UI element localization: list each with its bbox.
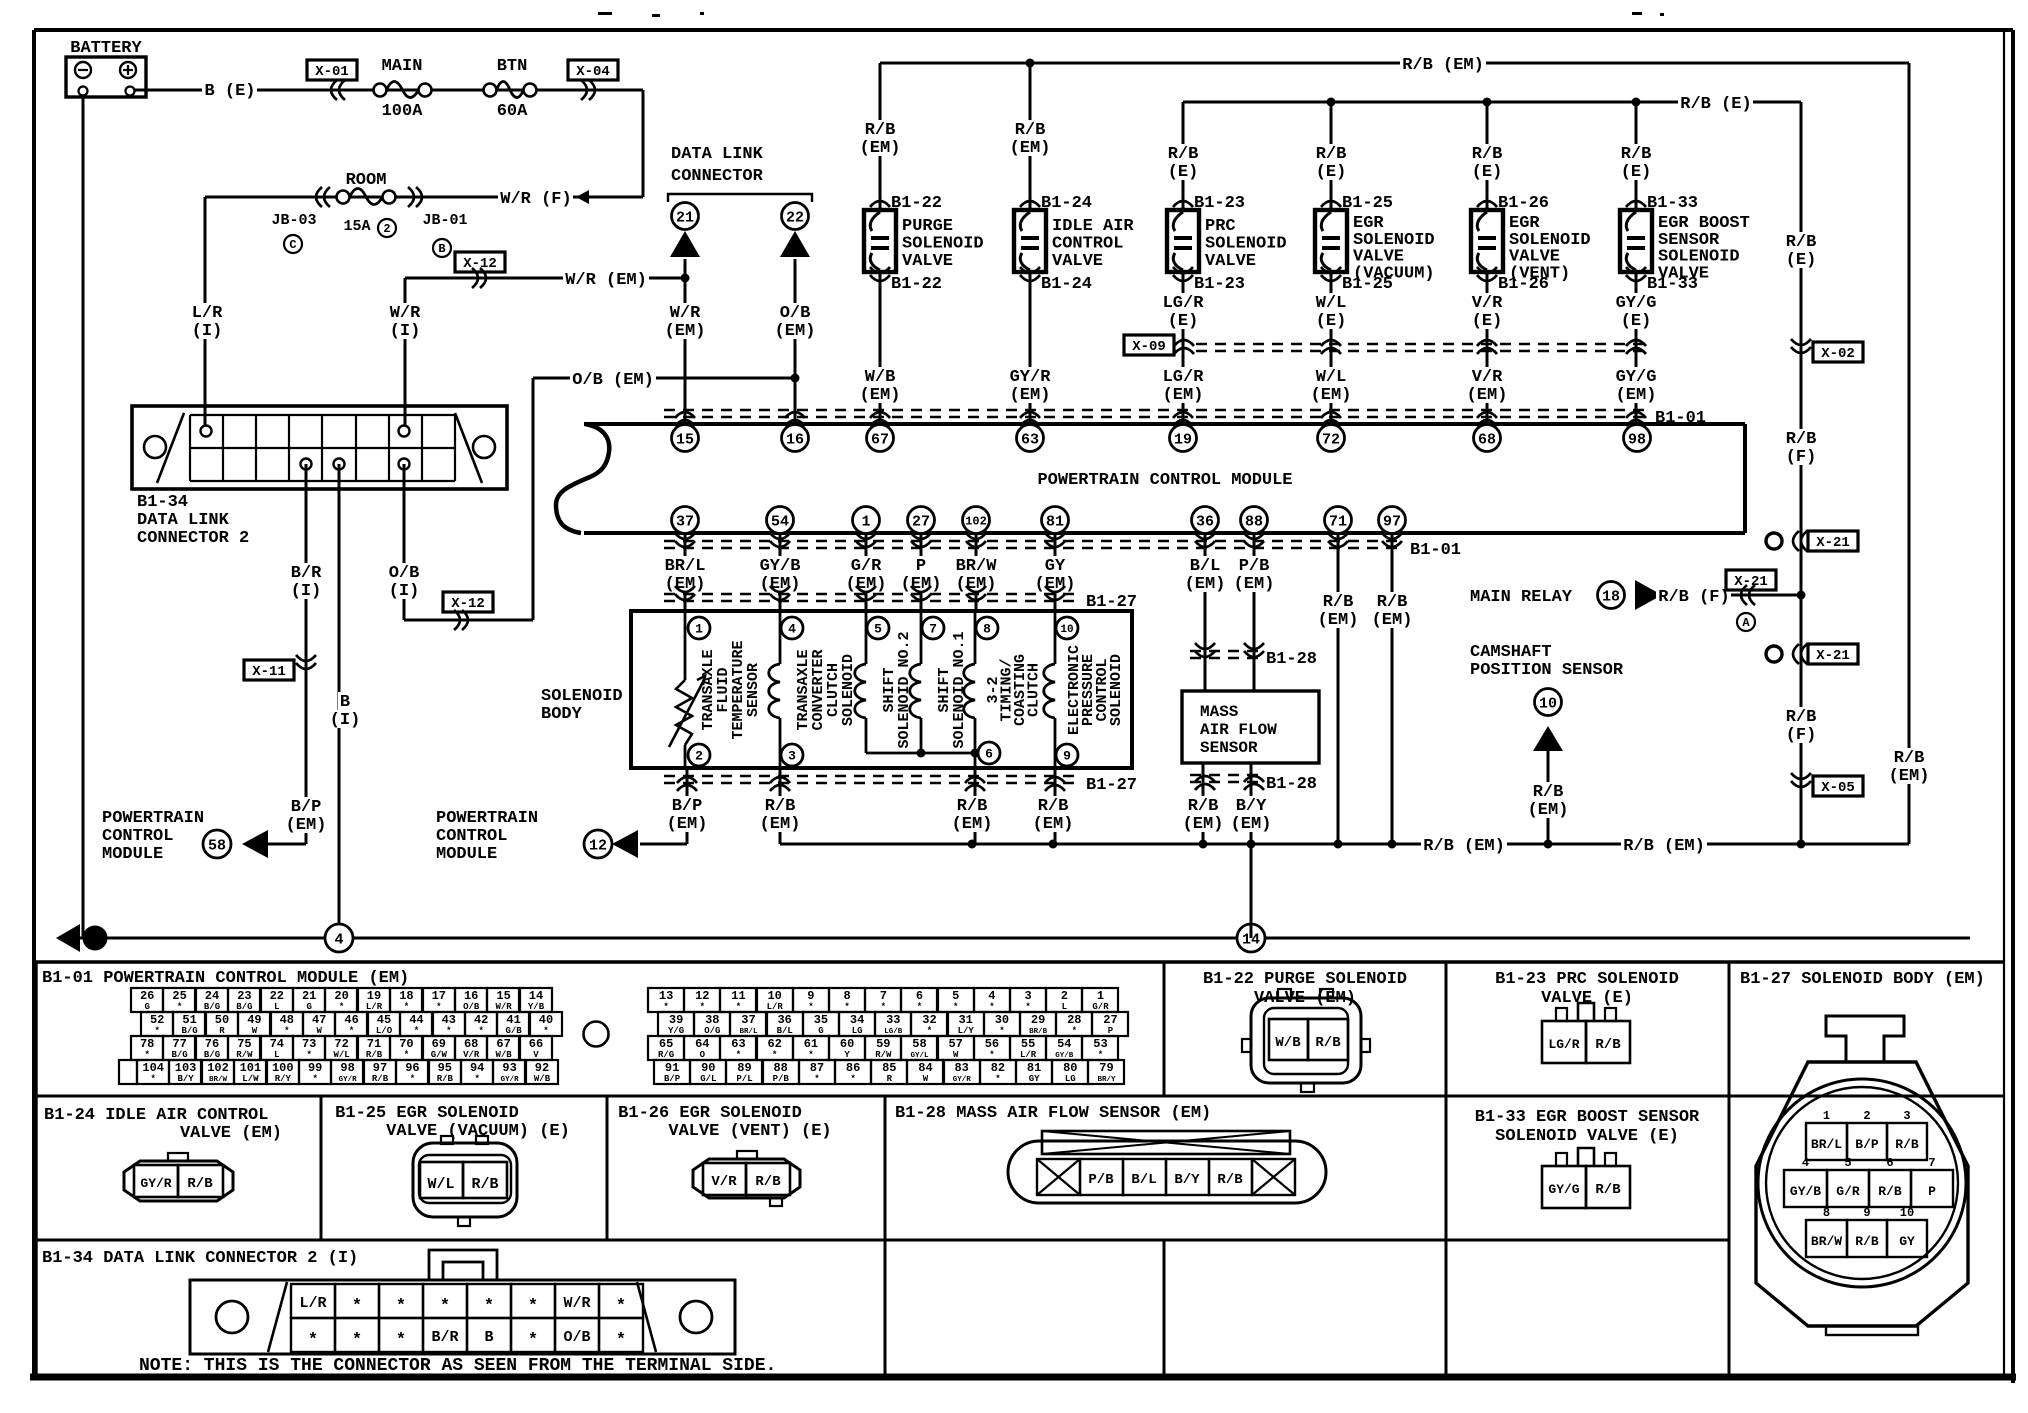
svg-text:B: B xyxy=(438,242,445,256)
svg-text:*: * xyxy=(177,1002,182,1012)
svg-text:29: 29 xyxy=(1031,1013,1045,1027)
svg-text:37: 37 xyxy=(676,513,694,530)
svg-text:R/G: R/G xyxy=(658,1050,674,1060)
svg-text:51: 51 xyxy=(182,1013,196,1027)
svg-text:GY/G: GY/G xyxy=(1548,1182,1579,1197)
svg-text:X-04: X-04 xyxy=(576,64,610,80)
svg-text:60: 60 xyxy=(840,1037,854,1051)
svg-text:14: 14 xyxy=(529,989,543,1003)
svg-text:66: 66 xyxy=(529,1037,543,1051)
svg-text:1: 1 xyxy=(861,513,870,530)
svg-text:B/Y: B/Y xyxy=(1174,1172,1200,1188)
svg-text:*: * xyxy=(850,1074,855,1084)
svg-text:(EM): (EM) xyxy=(1231,815,1272,834)
svg-text:B1-28: B1-28 xyxy=(1266,775,1317,794)
svg-text:*: * xyxy=(404,1002,409,1012)
svg-text:R/B: R/B xyxy=(957,797,988,816)
svg-text:36: 36 xyxy=(777,1013,791,1027)
svg-text:(EM): (EM) xyxy=(1372,611,1413,630)
wires PCM 36/88 to MAF xyxy=(1204,533,1207,691)
svg-text:*: * xyxy=(989,1002,994,1012)
svg-text:(EM): (EM) xyxy=(1010,386,1051,405)
svg-text:AIR FLOW: AIR FLOW xyxy=(1200,721,1277,739)
svg-text:84: 84 xyxy=(918,1061,932,1075)
svg-text:LG/R: LG/R xyxy=(1548,1037,1579,1052)
pin 63 xyxy=(1017,425,1044,452)
svg-text:21: 21 xyxy=(302,989,316,1003)
svg-text:B1-33 EGR BOOST SENSOR: B1-33 EGR BOOST SENSOR xyxy=(1475,1108,1700,1127)
svg-text:W/L: W/L xyxy=(1316,294,1347,313)
pin 71 xyxy=(1325,507,1352,534)
svg-text:SOLENOID: SOLENOID xyxy=(541,687,623,706)
svg-text:(EM): (EM) xyxy=(860,386,901,405)
pin 88 xyxy=(1241,507,1268,534)
svg-text:B/G: B/G xyxy=(204,1002,220,1012)
node 21 xyxy=(672,203,699,230)
svg-text:W/R: W/R xyxy=(563,1295,590,1312)
svg-text:BATTERY: BATTERY xyxy=(70,39,142,58)
svg-text:4: 4 xyxy=(334,931,343,948)
svg-text:R/B: R/B xyxy=(1855,1234,1879,1249)
svg-text:BR/B: BR/B xyxy=(1029,1028,1048,1036)
connector X-21 D xyxy=(1766,646,1782,662)
pin 54 xyxy=(767,507,794,534)
svg-text:10: 10 xyxy=(1060,624,1073,636)
svg-text:82: 82 xyxy=(991,1061,1005,1075)
B1-25 connector drawing xyxy=(413,1143,517,1217)
svg-text:*: * xyxy=(989,1050,994,1060)
svg-text:(VACUUM): (VACUUM) xyxy=(1353,264,1435,283)
wire GY (EM) xyxy=(1043,556,1067,574)
wire B(E) battery to X-04 xyxy=(134,89,643,92)
svg-text:W/B: W/B xyxy=(534,1074,551,1084)
connector X-12 lower xyxy=(443,592,493,612)
svg-text:POSITION SENSOR: POSITION SENSOR xyxy=(1470,661,1624,680)
svg-text:10: 10 xyxy=(1539,695,1557,712)
B1-34 connector drawing xyxy=(190,1280,735,1354)
solenoid body box xyxy=(631,611,1132,768)
svg-text:*: * xyxy=(1025,1002,1030,1012)
svg-text:R/B: R/B xyxy=(1168,145,1199,164)
wire B(I) xyxy=(338,464,341,938)
svg-text:*: * xyxy=(352,1297,362,1316)
svg-text:36: 36 xyxy=(1196,513,1214,530)
svg-text:31: 31 xyxy=(958,1013,972,1027)
svg-text:*: * xyxy=(404,1050,409,1060)
wire R/B(EM) right vertical xyxy=(1908,63,1911,844)
svg-text:L/W: L/W xyxy=(242,1074,259,1084)
svg-text:*: * xyxy=(478,1026,483,1036)
svg-text:88: 88 xyxy=(773,1061,787,1075)
svg-text:O: O xyxy=(700,1050,706,1060)
svg-text:*: * xyxy=(440,1297,450,1316)
svg-text:22: 22 xyxy=(786,209,804,226)
svg-text:98: 98 xyxy=(340,1061,354,1075)
solenoid valve B1-26 column xyxy=(1486,102,1489,425)
svg-text:56: 56 xyxy=(985,1037,999,1051)
solenoid valve B1-33 column xyxy=(1635,102,1638,425)
svg-text:1: 1 xyxy=(695,622,703,637)
svg-text:10: 10 xyxy=(767,989,781,1003)
svg-text:10: 10 xyxy=(1900,1206,1914,1220)
svg-text:(EM): (EM) xyxy=(286,816,327,835)
svg-text:GY/B: GY/B xyxy=(1055,1052,1074,1060)
svg-text:GY/R: GY/R xyxy=(140,1176,171,1191)
svg-text:L/R: L/R xyxy=(366,1002,383,1012)
wire PCM pin column x=685 xyxy=(684,533,687,611)
svg-text:47: 47 xyxy=(312,1013,326,1027)
svg-text:*: * xyxy=(1098,1050,1103,1060)
B1-27 connector drawing xyxy=(1756,1062,1968,1326)
svg-text:G: G xyxy=(818,1026,823,1036)
svg-text:*: * xyxy=(446,1026,451,1036)
svg-text:GY: GY xyxy=(1029,1074,1040,1084)
svg-text:R/B: R/B xyxy=(1015,121,1046,140)
svg-text:(E): (E) xyxy=(1621,163,1652,182)
pin 72 xyxy=(1318,425,1345,452)
svg-text:45: 45 xyxy=(377,1013,391,1027)
svg-text:73: 73 xyxy=(302,1037,316,1051)
svg-text:(E): (E) xyxy=(1472,312,1503,331)
B1-22 connector drawing xyxy=(1251,998,1361,1083)
svg-text:G/L: G/L xyxy=(700,1074,716,1084)
svg-text:104: 104 xyxy=(142,1061,164,1075)
svg-text:25: 25 xyxy=(172,989,186,1003)
svg-text:39: 39 xyxy=(669,1013,683,1027)
svg-text:L: L xyxy=(274,1050,279,1060)
svg-text:W/R: W/R xyxy=(670,304,701,323)
mass air flow sensor box xyxy=(1182,691,1319,763)
svg-text:B1-34: B1-34 xyxy=(137,493,188,512)
svg-text:4: 4 xyxy=(988,989,995,1003)
svg-text:V/R: V/R xyxy=(1472,294,1503,313)
svg-text:*: * xyxy=(881,1002,886,1012)
svg-text:*: * xyxy=(144,1050,149,1060)
svg-text:12: 12 xyxy=(695,989,709,1003)
svg-text:B1-34 DATA LINK CONNECTOR 2 (I: B1-34 DATA LINK CONNECTOR 2 (I) xyxy=(42,1249,358,1268)
border frame xyxy=(34,28,2013,32)
svg-text:*: * xyxy=(808,1050,813,1060)
arrow to PCM pin 58 xyxy=(242,830,268,858)
svg-text:BR/W: BR/W xyxy=(209,1076,228,1084)
svg-text:W/B: W/B xyxy=(865,368,896,387)
svg-text:B1-28: B1-28 xyxy=(1266,650,1317,669)
bottom table frame xyxy=(36,960,2004,963)
svg-text:X-12: X-12 xyxy=(451,596,485,612)
svg-text:98: 98 xyxy=(1628,431,1646,448)
svg-text:61: 61 xyxy=(804,1037,818,1051)
svg-text:B1-27: B1-27 xyxy=(1086,776,1137,795)
svg-text:GY/G: GY/G xyxy=(1616,294,1657,313)
svg-text:Y/G: Y/G xyxy=(668,1026,684,1036)
svg-text:(E): (E) xyxy=(1316,163,1347,182)
svg-text:86: 86 xyxy=(846,1061,860,1075)
svg-text:W/B: W/B xyxy=(1275,1035,1301,1051)
svg-text:R/B: R/B xyxy=(437,1074,454,1084)
svg-text:P/B: P/B xyxy=(1239,557,1270,576)
svg-text:CONNECTOR: CONNECTOR xyxy=(671,167,764,186)
svg-text:28: 28 xyxy=(1067,1013,1081,1027)
svg-text:R/Y: R/Y xyxy=(275,1074,292,1084)
svg-text:70: 70 xyxy=(399,1037,413,1051)
svg-text:B/G: B/G xyxy=(204,1050,220,1060)
svg-text:44: 44 xyxy=(409,1013,423,1027)
svg-text:G/R: G/R xyxy=(1836,1184,1860,1199)
svg-text:W: W xyxy=(316,1026,322,1036)
svg-text:(EM): (EM) xyxy=(760,815,801,834)
svg-text:PURGE: PURGE xyxy=(902,217,953,236)
svg-text:B/Y: B/Y xyxy=(1236,797,1267,816)
wire P (EM) xyxy=(914,556,928,574)
powertrain control module box xyxy=(584,422,1745,426)
svg-text:21: 21 xyxy=(676,209,694,226)
svg-text:IDLE AIR: IDLE AIR xyxy=(1052,217,1134,236)
svg-text:MAIN RELAY: MAIN RELAY xyxy=(1470,588,1573,607)
svg-text:(F): (F) xyxy=(1786,448,1817,467)
svg-text:63: 63 xyxy=(731,1037,745,1051)
wire BR/L (EM) xyxy=(663,556,708,574)
svg-text:2: 2 xyxy=(1863,1109,1870,1123)
svg-text:R/B (EM): R/B (EM) xyxy=(1623,837,1705,856)
svg-text:16: 16 xyxy=(786,431,804,448)
svg-text:B1-23: B1-23 xyxy=(1194,194,1245,213)
wire PCM pin column x=921 xyxy=(920,533,923,611)
svg-text:94: 94 xyxy=(470,1061,484,1075)
svg-text:B1-26 EGR SOLENOID: B1-26 EGR SOLENOID xyxy=(618,1104,802,1123)
svg-text:R/B: R/B xyxy=(1595,1182,1621,1198)
svg-text:W: W xyxy=(252,1026,258,1036)
svg-text:*: * xyxy=(308,1331,318,1350)
wire R/B(E)/(F) right vertical xyxy=(1800,102,1803,844)
wires below MAF xyxy=(1202,763,1205,844)
svg-text:L: L xyxy=(274,1002,279,1012)
svg-text:L: L xyxy=(1062,1002,1067,1012)
svg-text:W/R (F): W/R (F) xyxy=(500,190,571,209)
svg-text:*: * xyxy=(700,1002,705,1012)
svg-text:*: * xyxy=(814,1074,819,1084)
B1-23 connector drawing xyxy=(1542,1021,1586,1063)
svg-text:15A: 15A xyxy=(343,218,370,235)
svg-text:6: 6 xyxy=(985,747,993,762)
svg-text:(EM): (EM) xyxy=(1234,575,1275,594)
svg-text:*: * xyxy=(999,1026,1004,1036)
svg-text:7: 7 xyxy=(1928,1156,1935,1170)
B1-26 connector drawing xyxy=(693,1159,800,1198)
wire down from X-04 xyxy=(642,90,645,197)
svg-text:X-21: X-21 xyxy=(1816,648,1850,664)
svg-text:R/B: R/B xyxy=(1038,797,1069,816)
svg-text:GY/G: GY/G xyxy=(1616,368,1657,387)
svg-text:41: 41 xyxy=(506,1013,520,1027)
svg-text:SOLENOID: SOLENOID xyxy=(1205,235,1287,254)
svg-text:JB-01: JB-01 xyxy=(422,212,467,229)
svg-text:CONTROL: CONTROL xyxy=(1052,235,1123,254)
svg-text:B1-24: B1-24 xyxy=(1041,194,1092,213)
svg-text:27: 27 xyxy=(912,513,930,530)
svg-text:LG/R: LG/R xyxy=(1163,294,1205,313)
wire G/R (EM) xyxy=(849,556,884,574)
svg-text:P: P xyxy=(1108,1026,1114,1036)
svg-text:P/B: P/B xyxy=(1088,1172,1114,1188)
svg-text:22: 22 xyxy=(270,989,284,1003)
svg-text:R/B: R/B xyxy=(1894,749,1925,768)
svg-text:*: * xyxy=(528,1297,538,1316)
svg-text:R/B: R/B xyxy=(1533,783,1564,802)
svg-text:B/L: B/L xyxy=(1190,557,1221,576)
svg-text:SENSOR: SENSOR xyxy=(745,663,762,717)
junction JB-01 xyxy=(408,187,422,207)
svg-text:BR/L: BR/L xyxy=(1811,1137,1842,1152)
svg-text:Y/B: Y/B xyxy=(528,1002,545,1012)
svg-text:R/B: R/B xyxy=(1786,708,1817,727)
pin 68 xyxy=(1474,425,1501,452)
svg-text:B1-24 IDLE AIR CONTROL: B1-24 IDLE AIR CONTROL xyxy=(44,1106,268,1125)
ground line xyxy=(82,97,85,938)
solenoid valve B1-25 column xyxy=(1330,102,1333,425)
svg-text:57: 57 xyxy=(948,1037,962,1051)
svg-text:R/B: R/B xyxy=(1472,145,1503,164)
svg-text:X-02: X-02 xyxy=(1821,346,1855,362)
svg-text:19: 19 xyxy=(367,989,381,1003)
solenoid valve B1-23 column xyxy=(1182,102,1185,425)
svg-text:*: * xyxy=(284,1026,289,1036)
svg-text:85: 85 xyxy=(882,1061,896,1075)
svg-text:P/L: P/L xyxy=(736,1074,752,1084)
svg-text:40: 40 xyxy=(539,1013,553,1027)
svg-text:*: * xyxy=(352,1331,362,1350)
svg-text:(EM): (EM) xyxy=(1010,139,1051,158)
wires below solenoid body xyxy=(686,768,689,844)
svg-text:91: 91 xyxy=(665,1061,679,1075)
svg-text:76: 76 xyxy=(205,1037,219,1051)
svg-text:R/B (EM): R/B (EM) xyxy=(1402,56,1484,75)
svg-text:BR/Y: BR/Y xyxy=(1097,1076,1116,1084)
svg-text:POWERTRAIN CONTROL MODULE: POWERTRAIN CONTROL MODULE xyxy=(1037,471,1292,490)
svg-text:B1-23 PRC SOLENOID: B1-23 PRC SOLENOID xyxy=(1495,970,1679,989)
svg-text:V/R: V/R xyxy=(463,1050,480,1060)
svg-text:B/P: B/P xyxy=(291,798,322,817)
svg-text:SOLENOID VALVE (E): SOLENOID VALVE (E) xyxy=(1495,1127,1679,1146)
svg-text:9: 9 xyxy=(1063,749,1071,764)
svg-text:L/R: L/R xyxy=(192,304,223,323)
svg-text:B1-28 MASS AIR FLOW SENSOR (EM: B1-28 MASS AIR FLOW SENSOR (EM) xyxy=(895,1104,1211,1123)
svg-text:L/O: L/O xyxy=(376,1026,393,1036)
svg-text:78: 78 xyxy=(140,1037,154,1051)
wire W/R(EM) horizontal xyxy=(405,277,685,280)
svg-text:(EM): (EM) xyxy=(1185,575,1226,594)
connector B1-34 data link connector 2 xyxy=(132,406,507,489)
svg-text:60A: 60A xyxy=(497,102,528,121)
svg-text:(EM): (EM) xyxy=(1616,386,1657,405)
fuse MAIN 100A xyxy=(374,84,387,97)
svg-text:R/B: R/B xyxy=(755,1174,781,1190)
svg-text:B1-26: B1-26 xyxy=(1498,194,1549,213)
svg-text:9: 9 xyxy=(807,989,814,1003)
svg-text:(I): (I) xyxy=(389,582,420,601)
svg-text:B1-25: B1-25 xyxy=(1342,194,1393,213)
svg-text:GY/R: GY/R xyxy=(953,1076,972,1084)
svg-text:16: 16 xyxy=(464,989,478,1003)
svg-text:R/B: R/B xyxy=(1621,145,1652,164)
svg-text:P: P xyxy=(1928,1184,1936,1199)
svg-text:B/G: B/G xyxy=(171,1050,187,1060)
connector X-21 C xyxy=(1766,533,1782,549)
svg-text:13: 13 xyxy=(659,989,673,1003)
svg-text:W/L: W/L xyxy=(427,1176,454,1193)
svg-text:*: * xyxy=(772,1050,777,1060)
svg-text:GY/R: GY/R xyxy=(1010,368,1052,387)
svg-text:30: 30 xyxy=(995,1013,1009,1027)
svg-text:43: 43 xyxy=(442,1013,456,1027)
svg-text:CLUTCH: CLUTCH xyxy=(1026,663,1043,717)
svg-text:(EM): (EM) xyxy=(1033,815,1074,834)
svg-text:20: 20 xyxy=(334,989,348,1003)
svg-text:8: 8 xyxy=(843,989,850,1003)
svg-text:VALVE: VALVE xyxy=(1658,264,1709,283)
wire W/R(I) xyxy=(404,278,407,431)
svg-text:1: 1 xyxy=(1097,989,1104,1003)
wire L/R(I) xyxy=(204,197,207,431)
svg-text:DATA LINK: DATA LINK xyxy=(671,145,764,164)
svg-text:(EM): (EM) xyxy=(667,815,708,834)
svg-text:R/B: R/B xyxy=(1217,1172,1243,1188)
svg-text:CONTROL: CONTROL xyxy=(102,827,173,846)
svg-text:62: 62 xyxy=(767,1037,781,1051)
pin 19 xyxy=(1170,425,1197,452)
bus B1-27 lower xyxy=(664,775,1078,777)
svg-text:W: W xyxy=(953,1050,959,1060)
svg-text:7: 7 xyxy=(880,989,887,1003)
svg-text:LG/B: LG/B xyxy=(884,1028,903,1036)
wire PCM pin column x=1055 xyxy=(1054,533,1057,611)
3-2 timing/coasting clutch xyxy=(974,611,977,664)
svg-text:*: * xyxy=(410,1074,415,1084)
svg-text:SENSOR: SENSOR xyxy=(1200,739,1258,757)
svg-text:B1-27 SOLENOID BODY (EM): B1-27 SOLENOID BODY (EM) xyxy=(1740,970,1985,989)
svg-text:POWERTRAIN: POWERTRAIN xyxy=(102,809,204,828)
wire pin22 to PCM 16 xyxy=(794,259,797,425)
svg-text:*: * xyxy=(1072,1026,1077,1036)
bus B1-27 upper xyxy=(664,593,1078,595)
svg-text:6: 6 xyxy=(916,989,923,1003)
svg-text:BTN: BTN xyxy=(497,57,528,76)
bus B1-01 above PCM xyxy=(664,409,1648,411)
svg-text:75: 75 xyxy=(237,1037,251,1051)
svg-text:*: * xyxy=(927,1026,932,1036)
svg-text:102: 102 xyxy=(207,1061,229,1075)
svg-text:*: * xyxy=(414,1026,419,1036)
svg-text:50: 50 xyxy=(215,1013,229,1027)
svg-text:71: 71 xyxy=(1329,513,1347,530)
svg-text:58: 58 xyxy=(208,837,226,854)
svg-text:P: P xyxy=(916,557,926,576)
svg-text:(VENT): (VENT) xyxy=(1509,264,1570,283)
svg-text:PRC: PRC xyxy=(1205,217,1236,236)
svg-text:97: 97 xyxy=(1383,513,1401,530)
svg-text:99: 99 xyxy=(308,1061,322,1075)
svg-text:65: 65 xyxy=(659,1037,673,1051)
svg-text:2: 2 xyxy=(383,222,390,236)
connector X-11 xyxy=(244,660,294,680)
svg-text:V/R: V/R xyxy=(711,1174,737,1190)
svg-text:O/B: O/B xyxy=(563,1329,590,1346)
svg-text:POWERTRAIN: POWERTRAIN xyxy=(436,809,538,828)
svg-text:(E): (E) xyxy=(1316,312,1347,331)
svg-text:B/L: B/L xyxy=(777,1026,793,1036)
svg-text:P/B: P/B xyxy=(773,1074,790,1084)
svg-text:54: 54 xyxy=(771,513,789,530)
svg-text:(E): (E) xyxy=(1621,312,1652,331)
